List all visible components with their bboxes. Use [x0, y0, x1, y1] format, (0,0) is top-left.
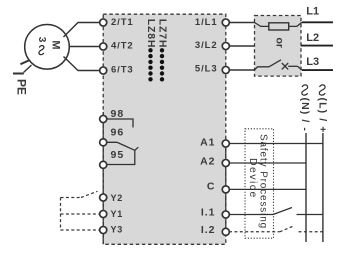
terminal 1/L1: [222, 19, 229, 26]
supply line L2: [301, 45, 333, 47]
circuit breaker Q1: [255, 60, 303, 70]
svg-text:5/L3: 5/L3: [195, 64, 218, 75]
svg-text:2/T1: 2/T1: [111, 17, 134, 28]
svg-text:6/T3: 6/T3: [111, 65, 134, 76]
PE wire: [13, 60, 32, 74]
svg-text:LZ8H: LZ8H: [145, 19, 156, 49]
drive enclosure (VFD): [103, 14, 226, 244]
terminal 2/T1: [100, 19, 107, 26]
svg-text:(L) / +: (L) / +: [317, 98, 329, 134]
svg-text:PE: PE: [15, 79, 29, 95]
Y1 dashed wire: [61, 213, 101, 215]
svg-text:Device: Device: [247, 158, 259, 199]
supply line L3: [302, 69, 333, 71]
terminal 5/L3: [222, 66, 229, 73]
svg-text:1/L1: 1/L1: [195, 17, 218, 28]
svg-text:Y2: Y2: [111, 193, 124, 203]
wire I.1 row with contact: [229, 208, 323, 215]
LZ8H dots: [148, 48, 152, 81]
terminal A1: [222, 140, 229, 147]
svg-text:LZ7H: LZ7H: [157, 19, 168, 49]
svg-text:L1: L1: [306, 6, 319, 18]
wire A2 row: [229, 162, 306, 164]
wire 1/L1 to or-box: [229, 22, 255, 24]
supply line L1: [302, 21, 333, 23]
label ~(L)/+: [319, 85, 325, 95]
svg-text:A2: A2: [200, 156, 215, 168]
wire 3/L2 to or-box: [229, 45, 255, 47]
svg-text:Y3: Y3: [111, 225, 124, 235]
fuse F1: [255, 22, 303, 30]
relay contact 98 wire: [106, 119, 133, 128]
terminal 95: [100, 161, 107, 168]
relay contact 96 wire with blade: [106, 142, 138, 150]
svg-text:3/L2: 3/L2: [195, 40, 218, 51]
wire motor to 4/T2: [69, 46, 100, 48]
terminal C: [222, 186, 229, 193]
svg-text:L3: L3: [306, 56, 319, 68]
terminal 6/T3: [100, 67, 107, 74]
svg-text:M: M: [50, 40, 62, 49]
wire I.2 row dashed with contact: [229, 226, 323, 232]
svg-text:4/T2: 4/T2: [111, 41, 134, 52]
svg-text:95: 95: [111, 149, 125, 161]
terminal 4/T2: [100, 43, 107, 50]
terminal Y3: [100, 226, 107, 233]
svg-text:C: C: [207, 181, 216, 193]
terminal A2: [222, 159, 229, 166]
svg-text:Y1: Y1: [111, 209, 124, 219]
Y dashed bus: [60, 198, 62, 231]
wire motor to 2/T1: [64, 23, 101, 38]
terminal Y1: [100, 210, 107, 217]
bus -/(N): [305, 133, 307, 242]
svg-text:(N) / -: (N) / -: [299, 98, 311, 133]
label ~(N)/-: [302, 85, 308, 95]
safety processing device box: [245, 129, 274, 238]
bus +/(L): [322, 133, 324, 242]
terminal 96: [100, 139, 107, 146]
wire A1 row: [229, 143, 323, 145]
terminal I.2: [222, 228, 229, 235]
svg-text:L2: L2: [306, 32, 319, 44]
Y3 dashed wire: [61, 229, 101, 231]
svg-text:I.2: I.2: [201, 224, 216, 236]
svg-text:I.1: I.1: [201, 207, 216, 219]
svg-text:or: or: [274, 38, 286, 49]
terminal 98: [100, 115, 107, 122]
wire C row: [229, 188, 306, 190]
or-box (fuse / breaker alternatives): [255, 16, 302, 77]
svg-text:A1: A1: [200, 136, 215, 148]
wire 5/L3 to or-box: [229, 69, 255, 71]
terminal Y2: [100, 194, 107, 201]
svg-text:3: 3: [36, 37, 47, 43]
relay contact 95 wire: [106, 150, 134, 164]
LZ7H dots: [160, 48, 164, 81]
svg-text:96: 96: [111, 126, 125, 138]
motor M 3~: [25, 25, 70, 70]
wire motor to 6/T3: [64, 57, 101, 71]
terminal I.1: [222, 211, 229, 218]
svg-text:98: 98: [111, 108, 125, 120]
terminal 3/L2: [222, 42, 229, 49]
Y2 dashed wire with contact: [61, 191, 98, 197]
